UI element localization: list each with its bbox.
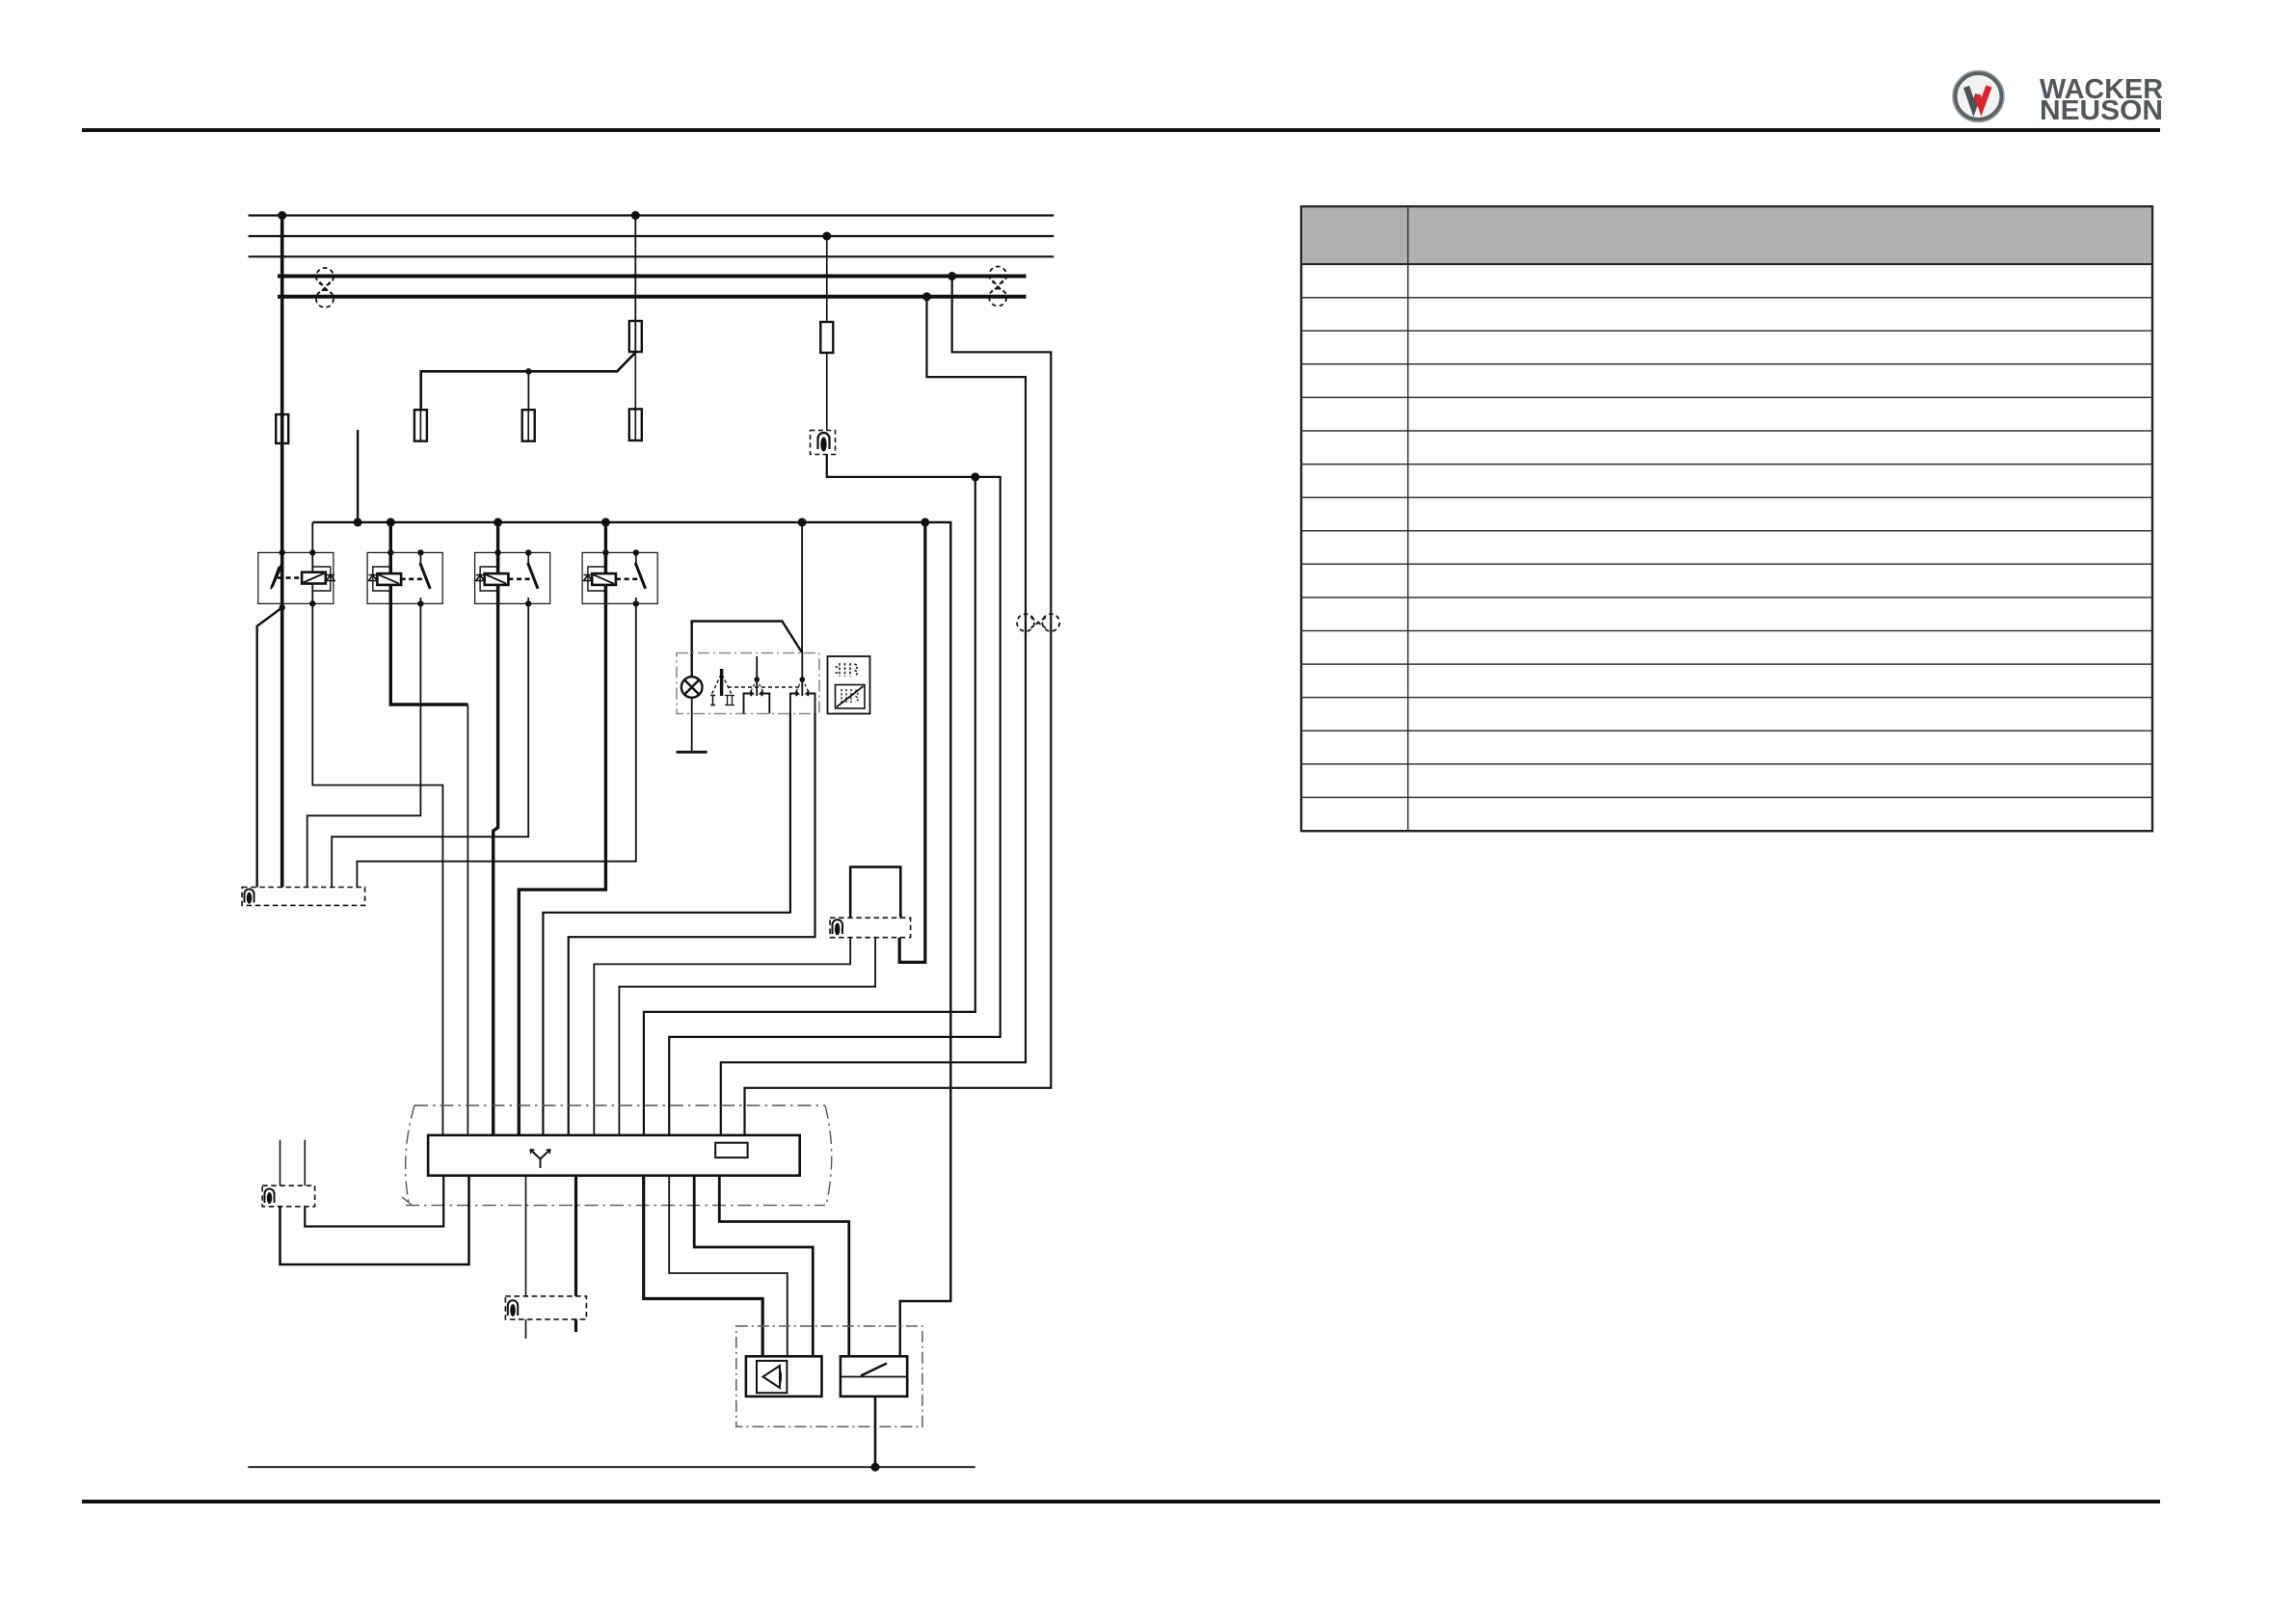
page bottom rule — [82, 1500, 2160, 1503]
node on bottom bus — [871, 1463, 880, 1472]
wire: X7a down then right (y=495) — [669, 455, 1000, 1135]
bus line L3 (thin) — [249, 255, 1055, 257]
fuse F3 — [820, 322, 833, 353]
wire: relay K4 coil feed down-left to strip pin 4 — [519, 522, 605, 1135]
wire: X5 stubs above — [280, 1140, 281, 1186]
node on L1 at x=659.3 — [631, 211, 640, 220]
connector X7a (inline plug below F3) — [811, 431, 836, 455]
fuse F2a — [629, 321, 642, 352]
component B1 (open-bottom box above connector X8) — [850, 867, 900, 918]
relay K3 — [475, 549, 550, 606]
wire: L4 jog to x=1090.3 then staircase to strip sub-connector — [745, 277, 1052, 1143]
wire: relay K1 coil feed down-right to strip pin 1 — [312, 522, 442, 1135]
connector X8 (dashed plug box below B1) — [830, 918, 911, 937]
wire: strip pin to X5 (upper) — [305, 1176, 443, 1227]
node on coil bus at x=371 — [354, 518, 362, 526]
Wacker Neuson logo text — [2040, 74, 2163, 126]
wire: relay K3 contact down-left to X4 pin4 — [332, 603, 528, 887]
wire: relay K2 coil feed down-right to strip pin 2 — [390, 522, 467, 705]
node on coil bus at x=405 (K2 feed) — [387, 518, 395, 526]
wire: contact B right leg to staircase (comb 6) — [569, 714, 815, 1135]
bottom bus line — [248, 1466, 974, 1468]
switch S1 contact B (right) — [790, 653, 815, 714]
wire: strip pin to switch S2 pin — [719, 1176, 849, 1357]
wire: stub joining bus at x=371.1 — [357, 430, 359, 522]
node on coil bus at x=628 (K4 feed) — [601, 518, 610, 526]
wire: relay K3 coil feed with jog to strip pin 3 — [494, 522, 498, 1135]
fuse F2b — [629, 409, 642, 440]
wire: vertical from L2 at x=857.8 — [826, 236, 828, 430]
fuse F1 — [276, 414, 288, 443]
wire: relay K1 lower contact diagonal to X4 pin1 — [257, 607, 282, 887]
wire: branch down to F5 — [527, 371, 529, 410]
wire: contact B left leg to staircase (comb 5) — [543, 714, 790, 1135]
page top rule — [82, 128, 2160, 132]
ignition/preheat switch S1 dash-dot box — [677, 653, 819, 714]
node on L4 at x=987.7 — [948, 272, 956, 280]
wire: X6 stubs below — [525, 1319, 527, 1339]
wire: lamp to ground — [691, 698, 693, 753]
node on L5 at x=961.5 — [922, 292, 931, 301]
wire: strip pin to horn pin1 — [644, 1176, 763, 1357]
wire: strip pin to X6 right — [574, 1176, 577, 1296]
horn / buzzer H2 — [746, 1356, 822, 1397]
dash-dot harness boundary around strip — [406, 1105, 832, 1206]
wire: main spine from L1 down to connector X4 — [280, 216, 284, 888]
parts table — [1301, 206, 2152, 831]
bus line L4 (thick) — [278, 275, 1027, 279]
node on L1 at x=292.7 — [278, 211, 286, 220]
wire: strip pin to horn pin3 — [694, 1176, 813, 1357]
wire: x=659.3 down to F2b — [634, 353, 636, 410]
wire: strip pin to X5 (lower) — [280, 1176, 469, 1264]
connector X4 (dashed box, 5 pins) — [242, 888, 365, 906]
connector X5 (dashed box left) — [262, 1185, 314, 1207]
strip fork symbol — [530, 1150, 550, 1169]
node on L2 at x=857.8 — [822, 232, 831, 241]
connector X3 (dashed circle pair on verticals, horizontal) — [1017, 614, 1059, 631]
switch S1 contact A (center) — [744, 656, 770, 714]
wire: B1 center pin to comb 8 — [619, 938, 875, 1135]
wire: relay coil bus y=542 with right corner down to S2 — [312, 522, 950, 1356]
strip sub-connector rect — [715, 1143, 747, 1157]
wire: strip pin to horn pin2 — [669, 1176, 788, 1357]
wire: branch from node down to staircase y=1050 — [644, 477, 975, 1135]
node at (1011.8,494.9) — [971, 472, 979, 481]
wire: relay K4 contact down-left to X4 pin5 — [357, 603, 635, 887]
switch S1 coupling dashed line — [728, 686, 800, 688]
Wacker Neuson logo emblem — [1953, 71, 2004, 122]
relay K1 — [258, 549, 334, 610]
bus line L1 (thin) — [249, 214, 1055, 216]
wire: lamp wire up-right with diagonal into switch — [692, 622, 803, 678]
pressure switch S2 — [841, 1356, 907, 1397]
ground — [677, 751, 707, 754]
connector X2 (dashed circle pair on L4/L5 right) — [989, 267, 1006, 306]
wire: L5 jog to x=1064 then staircase to strip sub-connector — [721, 297, 1026, 1143]
node on feeder at x=548.4 — [525, 368, 531, 374]
node on coil bus at x=517 (K3 feed) — [494, 518, 502, 526]
wire: B1 left pin to comb 7 — [594, 938, 850, 1135]
boundary tick — [402, 1197, 413, 1206]
fuse F4 — [414, 410, 427, 441]
wire: strip pin to X6 left — [525, 1176, 527, 1296]
glow/heater indicator box — [828, 656, 870, 714]
bottom dash-dot component box — [736, 1326, 922, 1426]
wire: S2 to bottom bus — [874, 1397, 877, 1467]
node on coil bus at x=960 (B1 feed) — [921, 518, 929, 526]
connector X6 (dashed box middle) — [505, 1296, 586, 1319]
indicator lamp H1 — [681, 677, 703, 698]
wire: vertical from L1 at x=659.3 — [634, 216, 636, 353]
relay K4 — [582, 549, 657, 606]
relay K2 — [367, 549, 442, 606]
wire: switch feed from bus to switch box — [801, 522, 803, 653]
wire: B1 right pin down-right-up to bus node — [899, 522, 925, 963]
wire: relay K2 contact down-left to X4 pin3 — [307, 603, 421, 887]
fuse F5 — [522, 410, 535, 441]
node on coil bus at x=832 (switch feed) — [798, 518, 807, 526]
switch S1 lever — [711, 669, 733, 696]
bus line L2 (thin) — [249, 235, 1055, 237]
wire: diagonal + feeder bus y=385 — [421, 353, 636, 411]
svg-text:NEUSON: NEUSON — [2040, 95, 2163, 126]
connector X1 (dashed circle pair on L4/L5) — [316, 268, 334, 307]
bus line L5 (thick) — [278, 295, 1027, 299]
switch S1 position labels — [710, 696, 734, 705]
ECU connector strip — [428, 1135, 800, 1176]
